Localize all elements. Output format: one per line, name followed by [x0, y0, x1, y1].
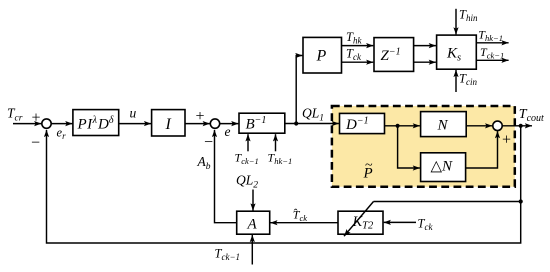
wire tap to KT2 adjust arrow [374, 201, 521, 203]
block DeltaN [421, 153, 466, 182]
wire KT2 to A Tckhat [270, 222, 338, 224]
wire Tck into KT2 [384, 221, 416, 223]
svg-text:+: + [502, 132, 511, 149]
wire Thin input [455, 9, 457, 35]
junction dot QL1 [294, 121, 298, 125]
svg-text:e: e [225, 124, 231, 139]
wire sum1 to PID [51, 123, 72, 125]
wire sum2 to Binv [220, 123, 239, 125]
svg-text:u: u [130, 106, 137, 121]
svg-text:−: − [31, 135, 40, 152]
wire Zinv to Ks upper [414, 45, 436, 47]
block N [421, 112, 467, 137]
integrator I [152, 110, 185, 136]
wire Ks out Thk-1 [476, 42, 508, 44]
wire P to Zinv Thk [342, 45, 374, 47]
wire I to sum2 [185, 123, 210, 125]
junction dot KT2 tap [519, 199, 523, 203]
block Z^-1 [374, 38, 414, 72]
svg-text:P: P [316, 48, 327, 65]
svg-text:−: − [204, 134, 213, 151]
wire Binv to Dinv with junction QL1 [285, 123, 339, 125]
wire Tck-1 bottom into A [251, 235, 253, 265]
svg-text:+: + [32, 110, 41, 127]
wire PID to I [119, 123, 151, 125]
svg-text:+: + [196, 108, 205, 125]
wire Tck-1 input into Binv [247, 134, 249, 151]
plant P [303, 37, 342, 73]
summing junction sum1 [42, 119, 51, 128]
wire Ks out Tck-1 [476, 59, 508, 61]
wire sum3 to Tcout [502, 125, 532, 127]
wire N to sum3 [466, 125, 492, 127]
adjustable arrow through KT2 [344, 202, 374, 237]
block KT2 [338, 211, 383, 234]
wire junction down to DeltaN [398, 126, 420, 168]
wire QL2 into A [252, 190, 254, 211]
wire P to Zinv Tck [342, 61, 374, 63]
svg-text:~: ~ [365, 158, 373, 173]
wire QL1 junction up to P [296, 56, 302, 124]
controller PI^lambda D^delta [73, 110, 119, 136]
wire Tcr to sum1 [13, 123, 41, 125]
wire Tcin input [455, 70, 457, 92]
junction dot after Dinv [396, 124, 400, 128]
svg-text:I: I [165, 116, 172, 133]
wire Tcout feedback down and along bottom to sum1 [47, 126, 521, 243]
block B^-1 [239, 113, 285, 133]
dashed uncertainty box P~ [332, 106, 515, 187]
wire Thk-1 input into Binv [275, 134, 277, 151]
summing junction sum3 [493, 121, 502, 130]
summing junction sum2 [210, 119, 219, 128]
wire Dinv to N [385, 125, 420, 127]
block Ks [437, 35, 477, 69]
wire DeltaN to sum3 [466, 131, 498, 168]
junction dot Tcout [519, 124, 523, 128]
wire A to sum2 Ab [215, 130, 237, 223]
svg-text:A: A [247, 217, 258, 233]
block D^-1 [340, 113, 385, 133]
wire Zinv to Ks lower [414, 61, 436, 63]
svg-text:△N: △N [431, 158, 454, 174]
block A [237, 211, 270, 234]
svg-text:ˆ: ˆ [294, 206, 298, 220]
svg-text:N: N [437, 118, 449, 134]
